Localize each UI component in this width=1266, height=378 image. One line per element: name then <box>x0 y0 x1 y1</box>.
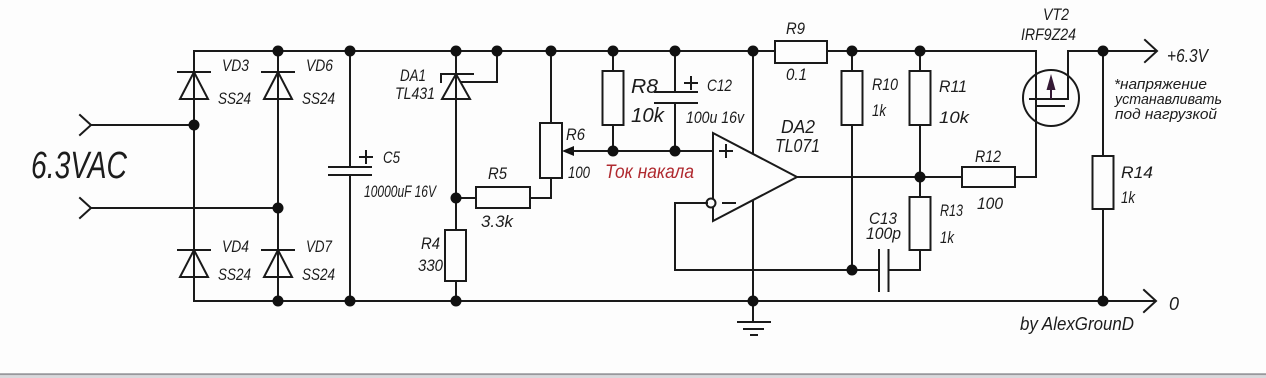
resistor R9 <box>775 41 827 63</box>
wire R14 column <box>1102 51 1104 301</box>
label 0 <box>1169 294 1179 314</box>
svg-text:R5: R5 <box>488 164 507 183</box>
svg-text:R6: R6 <box>566 125 585 144</box>
node R6 top <box>546 46 557 57</box>
label R14 <box>1121 163 1153 207</box>
wire op-amp V- <box>752 200 754 301</box>
op-amp DA2 <box>713 133 797 221</box>
label R4 <box>418 234 443 275</box>
svg-text:10k: 10k <box>631 105 665 127</box>
svg-text:1k: 1k <box>1121 188 1136 207</box>
wire inverting input feedback <box>675 203 878 270</box>
wire output rail +6.3V <box>1068 50 1155 52</box>
node C5 top <box>345 46 356 57</box>
svg-text:0.1: 0.1 <box>786 65 807 84</box>
svg-text:SS24: SS24 <box>218 89 251 108</box>
svg-text:330: 330 <box>418 256 443 275</box>
input arrow 1 <box>80 115 91 135</box>
label by AlexGrounD <box>1020 314 1134 334</box>
svg-text:by AlexGrounD: by AlexGrounD <box>1020 314 1134 334</box>
svg-text:R10: R10 <box>872 75 898 94</box>
capacitor C12 <box>655 77 697 103</box>
svg-text:под нагрузкой: под нагрузкой <box>1115 106 1218 123</box>
wire R12 to gate <box>1015 176 1036 178</box>
label R13 <box>940 201 963 247</box>
node R4 R5 junction <box>451 193 462 204</box>
wire op-amp output <box>797 176 962 178</box>
svg-text:10k: 10k <box>939 108 971 127</box>
label Ток накала <box>605 162 694 183</box>
svg-text:DA2: DA2 <box>781 117 815 137</box>
node R8 top <box>608 46 619 57</box>
R6 wiper arrow <box>562 146 574 156</box>
svg-text:C5: C5 <box>383 148 400 167</box>
wire middle bridge column <box>277 51 279 301</box>
resistor R4 <box>445 230 466 281</box>
wire C5 column <box>349 51 351 301</box>
svg-text:DA1: DA1 <box>400 66 426 85</box>
wire bottom rail 0 <box>194 300 1155 302</box>
node R11 top <box>915 46 926 57</box>
label R9 <box>786 19 807 84</box>
capacitor C13 <box>879 250 889 291</box>
resistor R10 <box>842 71 863 125</box>
ground <box>738 301 770 335</box>
wire AC input 2 <box>91 207 278 209</box>
label R10 <box>872 75 898 120</box>
wire left bridge column <box>193 51 195 301</box>
output arrow 0 <box>1144 290 1156 312</box>
svg-text:VD6: VD6 <box>306 56 333 75</box>
svg-text:R4: R4 <box>421 234 440 253</box>
label +6.3V <box>1167 46 1210 66</box>
wire R11 R13 column <box>919 51 921 250</box>
node opamp V+ <box>748 46 759 57</box>
wire AC input 1 <box>91 124 194 126</box>
diode VD4 <box>178 250 210 277</box>
svg-text:10000uF 16V: 10000uF 16V <box>364 182 437 201</box>
output arrow +6.3V <box>1145 40 1157 62</box>
node input1 junction <box>189 120 200 131</box>
node R14 top <box>1098 46 1109 57</box>
wire R5 leads <box>456 197 551 199</box>
transistor VT2 IRF9Z24 <box>1023 70 1079 126</box>
label R12 <box>975 147 1003 213</box>
node output junction <box>915 172 926 183</box>
node DA1 top <box>451 46 462 57</box>
capacitor C5 <box>329 151 372 175</box>
svg-text:Ток накала: Ток накала <box>605 162 694 183</box>
svg-text:6.3VAC: 6.3VAC <box>31 145 127 187</box>
svg-text:100p: 100p <box>866 224 901 243</box>
resistor R12 <box>962 167 1015 187</box>
wire C12 column <box>674 51 676 151</box>
svg-text:IRF9Z24: IRF9Z24 <box>1021 25 1076 44</box>
node R4 bottom <box>451 296 462 307</box>
svg-text:R13: R13 <box>940 201 963 220</box>
wire top rail <box>194 50 1036 52</box>
svg-text:0: 0 <box>1169 294 1179 314</box>
label C5 <box>364 148 437 201</box>
label R11 <box>939 77 971 127</box>
resistor R5 <box>476 187 530 208</box>
wire gate drain column <box>1035 51 1037 177</box>
node VD7 bottom <box>273 296 284 307</box>
svg-text:C12: C12 <box>707 76 732 95</box>
wire source lead <box>1067 51 1069 99</box>
wire op-amp V+ <box>752 51 754 154</box>
label VD4 <box>218 237 251 284</box>
wire heater current net <box>570 150 713 152</box>
node R8 bottom <box>608 146 619 157</box>
bottom separator <box>0 374 1266 378</box>
wire R8 column <box>612 51 614 151</box>
node R14 bottom <box>1098 296 1109 307</box>
svg-text:R11: R11 <box>939 77 967 96</box>
diode VD6 <box>262 72 294 99</box>
inverting input bubble <box>707 199 716 208</box>
svg-text:3.3k: 3.3k <box>481 212 514 231</box>
svg-text:R12: R12 <box>975 147 1001 166</box>
wire R6 column <box>550 51 552 198</box>
svg-text:1k: 1k <box>872 101 887 120</box>
label C12 <box>686 76 745 127</box>
label VD6 <box>302 56 335 108</box>
wire DA1 ref <box>462 51 497 82</box>
svg-text:100u 16v: 100u 16v <box>686 108 745 127</box>
svg-text:SS24: SS24 <box>302 89 335 108</box>
potentiometer R6 <box>540 123 562 178</box>
svg-text:VD7: VD7 <box>306 237 332 256</box>
svg-text:SS24: SS24 <box>302 265 335 284</box>
node C12 top <box>670 46 681 57</box>
label R5 <box>481 164 514 231</box>
label R6 <box>566 125 590 182</box>
svg-text:R14: R14 <box>1121 163 1153 182</box>
wire R10 column <box>851 51 853 270</box>
note text <box>1114 76 1222 123</box>
wire C13 to R13 <box>889 250 921 270</box>
node VD6 top <box>273 46 284 57</box>
resistor R14 <box>1093 156 1114 209</box>
diode VD3 <box>178 72 210 99</box>
label 6.3VAC <box>31 145 127 187</box>
label R8 <box>631 76 665 127</box>
svg-text:100: 100 <box>568 163 590 182</box>
svg-text:TL431: TL431 <box>395 84 435 103</box>
node R10 top <box>847 46 858 57</box>
label DA1 <box>395 66 435 103</box>
node input2 junction <box>273 203 284 214</box>
label VD3 <box>218 56 251 108</box>
svg-text:TL071: TL071 <box>775 136 820 156</box>
resistor R8 <box>603 71 624 125</box>
svg-text:VD4: VD4 <box>222 237 249 256</box>
label VD7 <box>302 237 335 284</box>
svg-text:100: 100 <box>977 194 1003 213</box>
label C13 <box>866 209 901 243</box>
resistor R13 <box>910 197 931 250</box>
node C12 bottom <box>670 146 681 157</box>
node C5 bottom <box>345 296 356 307</box>
input arrow 2 <box>80 198 91 218</box>
node DA1 ref top <box>492 46 503 57</box>
svg-text:R9: R9 <box>786 19 805 38</box>
shunt regulator DA1 TL431 <box>441 74 473 99</box>
resistor R11 <box>910 71 931 125</box>
label DA2 <box>775 117 820 156</box>
svg-text:+6.3V: +6.3V <box>1167 46 1210 66</box>
diode VD7 <box>262 250 294 277</box>
svg-text:SS24: SS24 <box>218 265 251 284</box>
node R10 feedback <box>847 265 858 276</box>
svg-text:1k: 1k <box>940 228 955 247</box>
svg-text:VD3: VD3 <box>222 56 249 75</box>
svg-text:VT2: VT2 <box>1043 5 1069 24</box>
svg-text:R8: R8 <box>631 76 658 98</box>
wire DA1 R4 column <box>455 51 457 301</box>
node opamp V- <box>748 296 759 307</box>
label VT2 <box>1021 5 1076 44</box>
